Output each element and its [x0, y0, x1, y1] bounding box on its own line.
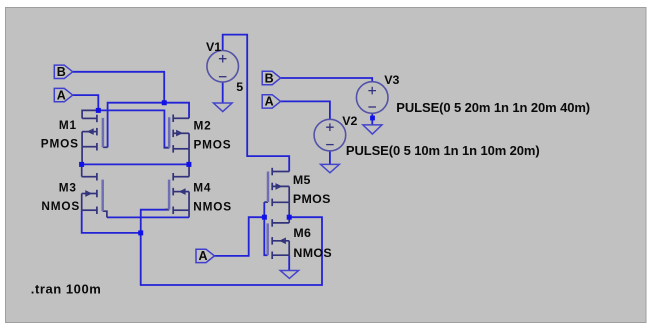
svg-text:A: A [57, 88, 66, 102]
svg-text:A: A [198, 249, 207, 263]
svg-text:PMOS: PMOS [41, 137, 79, 151]
svg-text:PMOS: PMOS [293, 192, 331, 206]
svg-text:NMOS: NMOS [293, 246, 332, 260]
svg-text:NMOS: NMOS [41, 199, 80, 213]
svg-text:A: A [265, 95, 274, 109]
svg-text:M3: M3 [59, 181, 77, 195]
svg-text:PULSE(0 5 20m 1n 1n 20m 40m): PULSE(0 5 20m 1n 1n 20m 40m) [396, 100, 590, 115]
svg-text:V3: V3 [384, 73, 399, 87]
svg-text:PMOS: PMOS [194, 138, 232, 152]
svg-text:.tran 100m: .tran 100m [31, 281, 102, 296]
svg-text:NMOS: NMOS [193, 200, 232, 214]
svg-text:M2: M2 [194, 118, 212, 132]
svg-text:M6: M6 [293, 226, 311, 240]
svg-text:M4: M4 [193, 181, 211, 195]
svg-text:M5: M5 [293, 173, 311, 187]
svg-text:V2: V2 [342, 114, 357, 128]
svg-text:M1: M1 [59, 118, 77, 132]
svg-text:B: B [57, 65, 66, 79]
svg-text:V1: V1 [206, 40, 221, 54]
svg-text:PULSE(0 5 10m 1n 1n 10m 20m): PULSE(0 5 10m 1n 1n 10m 20m) [346, 143, 540, 158]
svg-text:B: B [265, 71, 274, 85]
svg-text:5: 5 [236, 80, 243, 94]
